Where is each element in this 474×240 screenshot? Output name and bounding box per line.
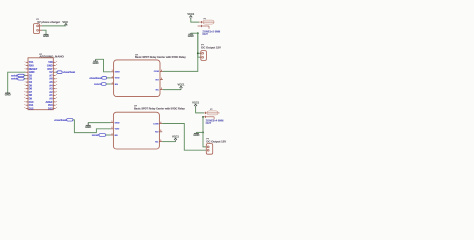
VCC supply symbol [62, 20, 68, 26]
junction dot zone1 gnd tap [197, 32, 199, 34]
svg-text:2: 2 [112, 76, 113, 78]
svg-text:D12: D12 [29, 106, 34, 110]
wire zone1 net down to P1 [198, 33, 201, 57]
fuse F1 [198, 18, 215, 28]
svg-text:GND: GND [193, 133, 199, 137]
U3 right pins COM NO NC [153, 121, 162, 143]
svg-text:+heartbeat: +heartbeat [63, 71, 75, 74]
node zone2 label at U3 EN [92, 134, 111, 137]
wire U1 GND pin to ground [8, 72, 26, 92]
U2 left pins GND VDD EN [111, 70, 120, 86]
svg-text:GND: GND [115, 122, 120, 124]
node net name ZONE1+2 0NM OUT [202, 30, 220, 36]
node +heartbeat label at U2 VDD [89, 77, 111, 80]
U1 right pin names [46, 60, 54, 110]
ground GND U3 [85, 123, 91, 130]
ground GND U1 [5, 92, 11, 97]
svg-text:VCC1: VCC1 [178, 83, 185, 87]
IC U1 ARDUINO_NANO [28, 54, 65, 110]
wire U3 COM to P2 [162, 124, 206, 151]
svg-text:+heartbeat: +heartbeat [89, 77, 101, 80]
svg-text:Basic SPDT Relay Carrier with: Basic SPDT Relay Carrier with 5VDC Relay [135, 56, 186, 59]
wire VCC1 to fuse F2 [196, 108, 205, 113]
relay U3 Basic SPDT Relay Carrier [113, 106, 185, 149]
svg-text:VDD: VDD [115, 129, 120, 131]
junction dot zone2 top [202, 116, 204, 118]
fuse F2 [203, 109, 220, 119]
VCC1 supply zone2 [192, 101, 199, 108]
svg-text:serial: serial [11, 78, 18, 81]
svg-text:GND: GND [188, 34, 194, 38]
node serial label 1 [11, 74, 26, 77]
VCC1 supply at U3 NC [172, 135, 179, 142]
ground GND zone1 [188, 33, 194, 38]
svg-text:NC: NC [156, 89, 160, 91]
svg-text:6: 6 [161, 78, 162, 80]
relay U2 Basic SPDT Relay Carrier [114, 55, 187, 97]
svg-text:3: 3 [112, 133, 113, 135]
connector P1 DC Output 12V [201, 45, 221, 61]
svg-text:6: 6 [160, 130, 161, 132]
svg-text:VCC: VCC [62, 20, 68, 24]
svg-text:1: 1 [112, 121, 113, 123]
svg-text:zone2: zone2 [92, 134, 99, 137]
svg-text:OUT: OUT [206, 121, 212, 125]
wire U3 NC to VCC1 [162, 141, 175, 143]
svg-text:GND: GND [85, 125, 91, 129]
svg-text:VCC1: VCC1 [187, 12, 194, 16]
ground GND U2 [93, 59, 99, 65]
svg-text:Basic SPDT Relay Carrier with: Basic SPDT Relay Carrier with 5VDC Relay [134, 107, 185, 110]
svg-text:COM: COM [153, 123, 158, 125]
node +heartbeat label to U3 VDD [54, 119, 110, 133]
node net name ZONE3+4 0NM OUT [206, 118, 224, 124]
svg-text:2: 2 [112, 127, 113, 129]
svg-text:5: 5 [160, 140, 161, 142]
svg-text:zone1: zone1 [94, 83, 101, 86]
svg-text:COM: COM [154, 71, 159, 73]
svg-text:EN: EN [115, 135, 118, 137]
node zone1 label at U2 EN [94, 83, 111, 86]
VCC1 supply at U2 NC [178, 83, 185, 90]
svg-text:VCC1: VCC1 [172, 135, 179, 139]
connector X1 5V phone charger [34, 19, 61, 34]
svg-text:NO: NO [155, 132, 159, 134]
svg-text:OUT: OUT [202, 32, 208, 36]
svg-text:DC Output 12V: DC Output 12V [201, 45, 221, 49]
svg-text:NC: NC [155, 141, 159, 143]
svg-text:VDD: VDD [115, 78, 120, 80]
svg-text:GND: GND [93, 61, 99, 65]
wire U2 GND pin to ground [96, 59, 111, 72]
svg-text:DC Output 12V: DC Output 12V [206, 139, 226, 143]
wire U3 GND pin to ground [88, 122, 110, 124]
node +heartbeat label at U1 [56, 71, 76, 74]
wire zone2 net down to P2 [203, 117, 206, 147]
ground GND charger [43, 34, 49, 39]
svg-text:5V phone charger: 5V phone charger [37, 20, 60, 24]
svg-text:+heartbeat: +heartbeat [54, 119, 66, 122]
U1 right pins with pin numbers [53, 61, 57, 109]
wire VCC1 to fuse F1 [191, 19, 199, 22]
node serial label 2 [11, 78, 26, 81]
VCC1 supply top right [187, 12, 194, 19]
svg-text:5: 5 [161, 88, 162, 90]
svg-text:VCC1: VCC1 [192, 101, 199, 105]
connector P2 DC Output 12V [206, 139, 226, 155]
wire U2 COM up to fuse F1 net [163, 33, 198, 71]
U1 left pin names [29, 60, 38, 110]
ground GND zone2 [193, 132, 199, 137]
svg-text:GND: GND [43, 34, 49, 38]
wire junction to ground [191, 32, 198, 34]
wire junction to ground zone2 [196, 131, 203, 133]
svg-text:NO: NO [156, 79, 160, 81]
wire U2 NC to VCC1 [163, 89, 181, 91]
svg-text:GND: GND [5, 93, 11, 97]
U3 left pins GND VDD EN [111, 121, 120, 137]
junction dot zone2 gnd tap [202, 132, 204, 134]
svg-text:D13: D13 [48, 106, 53, 110]
svg-text:1: 1 [112, 70, 113, 72]
U2 right pins COM NO NC [154, 69, 163, 92]
junction dot P1 pin1 [197, 52, 199, 54]
wire X1 pin1 to VCC [42, 25, 66, 27]
svg-text:3: 3 [112, 82, 113, 84]
svg-text:EN: EN [115, 84, 118, 86]
svg-text:GND: GND [115, 72, 120, 74]
U1 left pins with pin numbers [24, 61, 28, 109]
wire X1 pin2 to ground [42, 30, 46, 33]
